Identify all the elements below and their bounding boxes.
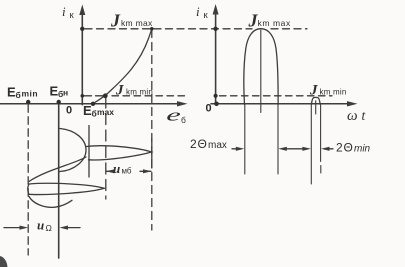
waveform petal 1 to curve peak <box>87 146 152 160</box>
label E_bmax <box>83 103 114 119</box>
svg-text:km min: km min <box>126 88 153 97</box>
svg-text:б: б <box>16 90 21 100</box>
node dot J_kmmax on left axis <box>80 27 84 31</box>
2-theta-min right shaft <box>327 148 333 150</box>
u_omega left arrowhead <box>20 226 29 230</box>
small current pulse J_kmmin <box>312 97 321 104</box>
u_mb left arrowhead <box>106 169 115 173</box>
svg-text:к: к <box>204 10 209 21</box>
transfer characteristic curve i_k(e_b) <box>93 29 152 104</box>
u_mb dimension arrow shafts <box>107 170 152 172</box>
node dot E_bmax <box>91 102 95 106</box>
dashed level line J_kmmin right part <box>220 95 333 97</box>
svg-text:к: к <box>70 10 75 21</box>
u_omega right arrowhead <box>60 226 69 230</box>
node dot J_kmmax on right axis <box>213 27 217 31</box>
solid vertical bias line E_bn <box>58 105 60 258</box>
svg-text:km min: km min <box>320 88 347 97</box>
arrowhead into big pulse right edge <box>278 147 287 151</box>
waveform descending sweep <box>29 157 86 182</box>
2-theta-max dimension left shaft <box>232 148 238 150</box>
svg-text:Θ: Θ <box>344 141 353 155</box>
svg-text:Ω: Ω <box>46 223 52 233</box>
label u_mb <box>113 161 132 176</box>
u_omega dimension right shaft <box>66 227 80 229</box>
svg-text:мб: мб <box>122 167 132 176</box>
arrowhead into small pulse left edge <box>302 147 311 151</box>
svg-text:2: 2 <box>190 137 197 151</box>
svg-text:0: 0 <box>206 103 212 115</box>
u_mb right arrowhead <box>143 169 152 173</box>
label 2-theta-min <box>336 141 371 155</box>
right plot vertical axis arrowhead <box>213 4 219 15</box>
2-theta-min outside arrowhead <box>321 147 330 151</box>
svg-text:km max: km max <box>258 18 291 28</box>
left plot horizontal axis e_b <box>0 103 183 105</box>
svg-text:min: min <box>22 89 39 99</box>
label i_k right axis <box>196 4 209 21</box>
waveform carrier cap lobe <box>60 129 86 172</box>
waveform petal 2 <box>28 183 105 194</box>
svg-text:б: б <box>92 109 97 119</box>
svg-text:J: J <box>309 83 318 99</box>
node dot E_bn <box>57 100 61 104</box>
dashed level line J_kmmin <box>112 95 189 97</box>
svg-text:min: min <box>354 144 371 155</box>
dashed vertical at curve peak <box>151 30 153 231</box>
svg-text:J: J <box>115 83 124 99</box>
left plot vertical axis i_k <box>81 10 83 105</box>
svg-text:u: u <box>37 218 44 233</box>
label u_omega <box>37 218 52 234</box>
label 2-theta-max <box>190 137 227 151</box>
label E_bn <box>50 84 69 100</box>
node dot E_bmin <box>26 100 30 104</box>
svg-text:Θ: Θ <box>198 137 207 151</box>
svg-text:2: 2 <box>336 141 343 155</box>
right plot vertical axis i_k <box>215 9 217 105</box>
dashed level line J_kmmax <box>85 28 252 30</box>
svg-text:J: J <box>110 11 121 31</box>
small pulse left side extension below axis <box>310 104 312 184</box>
dashed vertical at E_bmin <box>27 105 29 255</box>
label J_kmmin right <box>309 83 346 99</box>
shaft between pulses <box>284 148 305 150</box>
scan artifact blob bottom-left corner <box>0 256 8 267</box>
node dot on curve at J_kmmin <box>103 93 108 98</box>
node dot at curve peak <box>150 27 154 31</box>
node dot J_kmmin on left axis <box>81 94 85 98</box>
node dot J_kmmin on right axis <box>214 94 218 98</box>
label E_bmin <box>7 85 38 101</box>
svg-text:ω: ω <box>347 108 358 124</box>
small pulse right side extension below axis <box>320 104 322 161</box>
2-theta-max left outside arrowhead <box>236 147 245 151</box>
svg-text:u: u <box>113 161 120 176</box>
label omega-t axis <box>347 108 367 124</box>
small pulse center line <box>315 101 317 114</box>
left plot vertical axis arrowhead <box>79 5 85 16</box>
svg-text:0: 0 <box>66 105 72 117</box>
svg-text:km max: km max <box>121 18 153 28</box>
J_kmmin level line from axis to curve <box>82 95 103 97</box>
label J_kmmax left <box>110 11 153 31</box>
label i_k left axis <box>62 4 75 21</box>
label e_b axis <box>165 106 186 125</box>
node dot right origin <box>214 102 219 107</box>
right plot horizontal axis arrowhead <box>347 101 358 106</box>
svg-text:max: max <box>208 140 227 151</box>
right plot horizontal axis omega-t <box>211 103 353 105</box>
svg-text:б: б <box>181 115 186 125</box>
svg-text:i: i <box>196 4 200 19</box>
dashed vertical at curve J_kmmin point <box>105 97 107 199</box>
label J_kmmax right <box>248 11 291 31</box>
waveform petal 3 tail <box>29 197 72 208</box>
big pulse right side extension below axis <box>277 105 279 175</box>
svg-text:max: max <box>97 107 114 117</box>
svg-text:н: н <box>63 88 68 98</box>
big pulse left side extension below axis <box>244 105 246 175</box>
svg-text:t: t <box>362 108 367 123</box>
big pulse center line <box>260 30 262 113</box>
u_omega dimension left shaft <box>4 227 21 229</box>
dashed level line J_kmmax continuation right of pulse <box>271 28 307 30</box>
label J_kmmin left <box>115 83 153 99</box>
big current pulse J_kmmax <box>244 29 278 105</box>
solid tick segment of peak vertical (u_mb dimension end) <box>151 139 153 168</box>
left plot horizontal axis arrowhead <box>177 101 188 106</box>
solid vertical projection line at E_bmax <box>88 126 90 178</box>
svg-text:i: i <box>62 4 66 19</box>
small pulse right side extension dash <box>320 166 322 174</box>
